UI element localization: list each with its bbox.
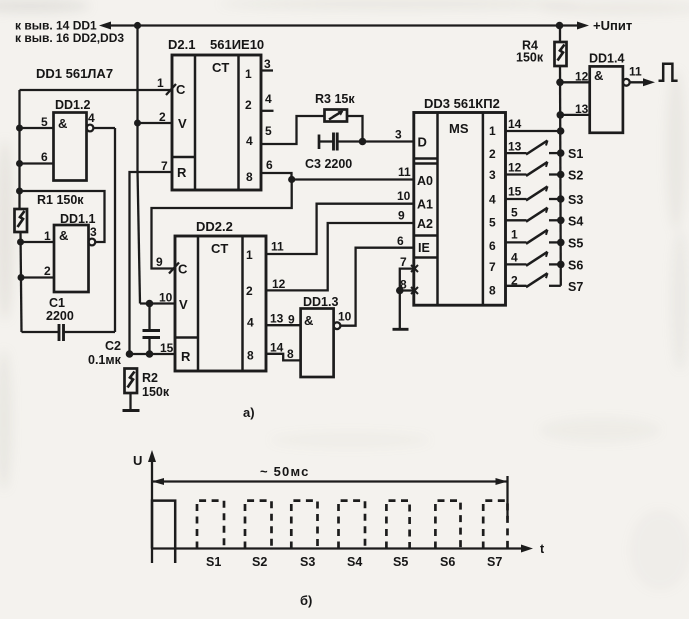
gate DD1.1 [54,225,89,292]
svg-text:150к: 150к [142,385,170,399]
dashed pulse S3 [291,501,317,549]
capacitor C1 [62,324,65,341]
svg-text:R2: R2 [142,371,158,385]
wire DD1.1 input 2 [21,276,54,278]
svg-text:t: t [540,542,545,556]
wire vertical DD1.2 output down to C1 [114,128,116,332]
svg-text:8: 8 [489,284,496,298]
svg-text:4: 4 [511,251,518,265]
wire R2 to ground [129,393,131,411]
wire DD2.1 V input [138,122,173,124]
svg-text:1: 1 [245,67,252,81]
node junction C2 bottom [146,350,154,358]
svg-text:3: 3 [489,168,496,182]
capacitor C2 [143,329,161,332]
wire C1 left lead [22,331,60,333]
dashed pulse S7 [483,501,507,549]
svg-text:8: 8 [246,170,253,184]
svg-text:CT: CT [212,60,229,75]
svg-text:12: 12 [272,277,286,291]
wire C3 left lead [319,140,334,142]
svg-text:3: 3 [90,225,97,239]
node input1 junction [17,239,24,246]
wire C2 branch down [148,304,150,331]
wire DD2.2 out8 pin14 to DD1.3 input8 [266,354,301,361]
svg-text:2: 2 [159,110,166,124]
dashed pulse S1 [197,501,224,549]
pin DD1.3 output inversion circle [334,322,341,329]
pin DD2.2 C dynamic-input slash [169,263,179,274]
svg-text:12: 12 [575,70,589,84]
svg-text:S1: S1 [206,555,221,569]
svg-text:+Uпит: +Uпит [593,18,632,33]
svg-text:S7: S7 [487,555,502,569]
pin cross mark pin7 [411,265,418,272]
svg-text:V: V [178,116,187,131]
switch S1 [506,152,527,154]
node input6 junction [16,160,23,167]
svg-text:15: 15 [508,185,522,199]
pin DD2.1 C dynamic-input slash [166,84,176,95]
svg-text:C2: C2 [105,339,121,353]
svg-text:5: 5 [511,206,518,220]
svg-text:9: 9 [156,255,163,269]
svg-text:DD1 561ЛА7: DD1 561ЛА7 [36,66,113,81]
counter DD2.2 box [175,236,266,371]
wire S rail below R4 [559,66,562,286]
svg-text:7: 7 [161,159,168,173]
wire C1 right lead [64,331,115,333]
svg-text:1: 1 [44,229,51,243]
pulse symbol at output [659,64,678,81]
dashed pulse S2 [245,501,272,549]
node junction pin6 to DD2.2 clock branch [288,176,295,183]
svg-text:C3 2200: C3 2200 [305,157,352,171]
svg-text:A1: A1 [417,198,433,212]
resistor R1 [15,209,28,232]
resistor R4 [555,42,567,66]
switch S7 [506,285,527,287]
wire left rail (multivibrator common node) [18,90,20,209]
svg-text:6: 6 [266,158,273,172]
svg-text:R: R [177,165,187,180]
switch S4 [506,219,527,221]
svg-text:6: 6 [489,239,496,253]
svg-text:R3 15к: R3 15к [315,92,355,106]
wire DD1.1 output feedback up and left [20,191,105,242]
svg-text:S3: S3 [300,555,315,569]
node input5 junction [16,125,23,132]
pin DD2.1 out2 stub pin4 [261,110,274,112]
node junction V input / C2 top [146,300,154,308]
svg-text:4: 4 [489,193,496,207]
resistor R3 [325,110,348,122]
gate DD1.3 [301,309,334,378]
svg-text:1: 1 [489,124,496,138]
svg-text:C: C [178,262,188,277]
wire DD1.4 output arrow [630,81,650,83]
svg-text:C1: C1 [49,296,65,310]
wire DD2.2 out4 pin13 to DD1.3 input9 [266,324,301,326]
switch S2 [506,173,527,175]
svg-text:V: V [179,297,188,312]
wire DD1.2 input 6 [20,162,54,164]
wire R3 right lead down to C3 node [347,116,363,142]
svg-text:S7: S7 [568,280,583,294]
svg-text:U: U [133,453,142,468]
svg-text:11: 11 [629,65,642,79]
svg-text:C: C [176,82,186,97]
ground [393,328,409,331]
svg-text:1: 1 [157,76,164,90]
svg-text:D2.1: D2.1 [168,37,195,52]
switch S3 [506,198,527,200]
svg-text:4: 4 [247,316,254,330]
wire DD2.1 out4 pin5 to R3 [261,116,325,144]
svg-text:0.1мк: 0.1мк [88,353,122,367]
wire DD2.1 C input from left rail [20,89,173,91]
svg-text:6: 6 [397,234,404,248]
svg-text:14: 14 [270,341,284,355]
svg-text:12: 12 [508,161,522,175]
wire R row [130,353,176,355]
wire DD1.3 output to DD3 IE [340,248,413,326]
wire DD3 pin7 pin8 to ground [400,269,415,330]
svg-text:DD1.2: DD1.2 [55,98,90,112]
pin cross mark pin8 [411,287,418,294]
svg-text:13: 13 [575,102,589,116]
svg-text:561ИЕ10: 561ИЕ10 [210,37,264,52]
svg-text:11: 11 [398,165,411,179]
svg-text:14: 14 [508,117,522,131]
svg-text:&: & [594,68,603,83]
svg-text:6: 6 [41,150,48,164]
svg-text:5: 5 [265,124,272,138]
node pin13 tap [557,111,565,119]
wire +Upit arrow segment [560,24,585,26]
wire DD1.4 input 13 [560,114,589,116]
svg-text:10: 10 [159,291,173,305]
svg-text:A0: A0 [417,174,433,188]
gate DD1.4 [590,66,623,132]
switch S6 [506,263,527,265]
resistor R2 [125,369,138,394]
svg-text:&: & [59,228,68,243]
solid pulse [152,501,175,563]
svg-text:7: 7 [489,260,496,274]
pin DD2.1 out1 stub pin3 [261,69,273,71]
capacitor C3 [332,133,335,151]
svg-text:3: 3 [264,57,271,71]
svg-text:11: 11 [271,240,284,254]
svg-text:10: 10 [397,189,411,203]
svg-text:2200: 2200 [46,309,74,323]
node pin14 junction [557,127,565,135]
dashed pulse S5 [386,501,409,549]
svg-text:3: 3 [395,128,402,142]
svg-text:S5: S5 [393,555,408,569]
wire DD2.1 out8 pin6 to DD3 A0 [261,173,414,180]
svg-text:1: 1 [246,248,253,262]
svg-text:DD3 561КП2: DD3 561КП2 [424,96,500,111]
timing diagram t axis [152,547,528,549]
wire rail from top to R4 [559,26,561,43]
svg-text:2: 2 [511,274,518,288]
dimension end tick / S7 right edge solid [506,476,508,519]
svg-text:S3: S3 [568,193,583,207]
svg-text:9: 9 [288,313,295,327]
svg-text:S4: S4 [347,555,362,569]
svg-text:DD1.4: DD1.4 [589,52,624,66]
node junction top rail to V rail [134,22,141,29]
svg-text:150к: 150к [516,51,544,65]
svg-text:4: 4 [88,111,95,125]
wire DD2.2 out1 pin11 to DD3 A1 [266,204,414,254]
svg-text:5: 5 [41,115,48,129]
svg-text:S2: S2 [252,555,267,569]
svg-text:~ 50мс: ~ 50мс [260,464,310,479]
node junction R3/C3 [359,138,367,146]
svg-text:13: 13 [270,312,284,326]
dimension line ~50ms [152,480,508,482]
svg-text:S1: S1 [568,147,583,161]
ground [123,409,140,412]
dashed pulse S6 [435,501,460,549]
wire branch down to DD2.2 C input [152,180,292,269]
counter DD2.1 box [172,55,261,190]
svg-text:4: 4 [265,92,272,106]
timing diagram U axis [151,456,153,563]
wire V rail vertical from top rail down to DD2.2 V pin [136,26,138,171]
svg-text:S4: S4 [568,215,583,229]
wire C3 to DD3 D input [337,140,414,142]
node junction pin8 [396,287,404,295]
node feedback junction [16,188,23,195]
arrow to k vyv. (left end of top rail) [99,22,111,30]
svg-text:&: & [304,313,313,328]
svg-text:к выв. 16 DD2,DD3: к выв. 16 DD2,DD3 [15,31,124,45]
svg-text:CT: CT [211,241,228,256]
node junction R2 top [126,350,134,358]
svg-text:D: D [418,135,427,150]
wire DD2.2 out2 pin12 to DD3 A2 [266,223,414,290]
node pin12 tap [556,79,564,87]
svg-text:S5: S5 [568,237,583,251]
svg-text:1: 1 [511,228,518,242]
wire top supply rail [103,24,560,26]
svg-text:а): а) [243,405,255,420]
wire C3 open end tick [318,135,321,150]
multiplexer DD3 box [414,113,506,306]
svg-text:A2: A2 [417,217,433,231]
svg-text:S6: S6 [568,259,583,273]
svg-text:2: 2 [489,147,496,161]
svg-text:DD2.2: DD2.2 [196,219,233,234]
svg-text:2: 2 [245,98,252,112]
node V rail to DD2.1 V input [134,120,141,127]
wire DD1.1 input 1 [21,241,55,243]
svg-text:R: R [181,349,191,364]
wire DD1.4 input 12 [560,81,590,83]
svg-text:8: 8 [400,278,407,292]
svg-text:5: 5 [489,216,496,230]
svg-text:2: 2 [44,264,51,278]
svg-text:7: 7 [400,255,407,269]
svg-text:15: 15 [160,341,174,355]
pin DD1.1 output inversion circle [89,239,96,246]
svg-text:&: & [58,116,67,131]
svg-text:S6: S6 [440,555,455,569]
svg-text:MS: MS [449,121,469,136]
svg-text:IE: IE [418,241,430,255]
svg-text:10: 10 [338,310,352,324]
dashed pulse S4 [339,501,366,549]
svg-text:R1 150к: R1 150к [37,193,84,207]
pin DD1.2 output inversion circle [87,125,94,132]
svg-text:8: 8 [247,349,254,363]
svg-text:DD1.3: DD1.3 [303,295,338,309]
node input2 junction [18,274,25,281]
svg-text:б): б) [300,593,312,608]
wire DD1.2 input 5 [20,127,54,129]
svg-text:13: 13 [508,140,522,154]
svg-text:S2: S2 [568,169,583,183]
svg-text:DD1.1: DD1.1 [60,212,95,226]
node junction top rail to R4 [556,22,564,30]
svg-text:4: 4 [246,134,253,148]
pin DD1.4 output inversion circle [623,79,630,86]
switch S5 [506,241,527,243]
gate DD1.2 [54,113,87,181]
svg-text:8: 8 [287,347,294,361]
svg-text:9: 9 [398,209,405,223]
svg-text:2: 2 [246,284,253,298]
wire DD1.2 output to vertical [93,127,115,129]
wire DD3 out1 pin14 to rail [506,130,561,132]
wire DD2.1 R input [130,172,173,354]
